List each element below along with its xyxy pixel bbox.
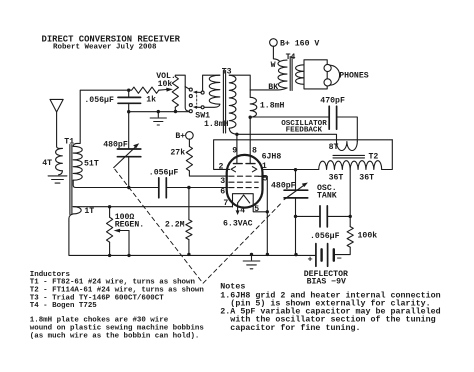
wire B+ to 27k (188, 139, 190, 146)
wire 1k to volume wiper arrow (159, 89, 167, 92)
node ground symbol stub (250, 253, 253, 256)
svg-text:1.8mH plate chokes are #30 wir: 1.8mH plate chokes are #30 wire (30, 317, 169, 325)
transformer T1 tickler 1T (73, 207, 81, 214)
svg-text:2: 2 (219, 163, 224, 172)
wire T3 right bottom lead (229, 128, 237, 134)
switch SW1 gang dashed link (196, 95, 198, 104)
capacitor C .056uF grid plates (159, 178, 167, 198)
svg-text:T1 - FT82-61 #24 wire, turns a: T1 - FT82-61 #24 wire, turns as shown (30, 279, 196, 287)
svg-text:6.3VAC: 6.3VAC (223, 219, 253, 228)
svg-text:−: − (337, 254, 342, 264)
wire feedback upper to 470pF (250, 116, 329, 118)
phones earpieces (324, 64, 331, 71)
wire pin 9 plate lead (236, 134, 238, 163)
svg-text:T2 - FT114A-61 #24 wire, turns: T2 - FT114A-61 #24 wire, turns as shown (30, 286, 205, 294)
battery deflector bias plates (316, 244, 328, 267)
svg-text:B+ 160 V: B+ 160 V (280, 39, 319, 48)
svg-text:470pF: 470pF (320, 96, 345, 105)
wire T1 primary to ground (59, 171, 63, 175)
wire pin 2 to tank top (214, 140, 393, 170)
wire B+ to T4 (273, 46, 279, 61)
phones jack body (304, 60, 327, 89)
tube deflector left (231, 167, 235, 172)
inductor 8T coupling coil (337, 142, 358, 151)
node regen pot top (108, 205, 111, 208)
wire 100k to battery (334, 247, 350, 254)
node input cap top (127, 89, 130, 92)
wire SW1 pole upper to T3 top (203, 75, 220, 91)
wire SW1 pole lower to T3 bottom (204, 104, 220, 107)
resistor 27k (186, 146, 192, 170)
node input cap bottom (127, 110, 130, 113)
wire tap to 100k (349, 216, 351, 226)
transformer T3 left winding (209, 75, 220, 104)
potentiometer VOL 10k (172, 77, 178, 108)
transformer T3 core (223, 71, 225, 134)
ground volume (150, 118, 166, 125)
node osc cap junction (294, 215, 297, 218)
svg-text:.056µF: .056µF (84, 96, 114, 105)
svg-text:27k: 27k (170, 148, 185, 158)
tube grid row 2 (229, 181, 258, 183)
switch SW1 contacts (189, 88, 192, 91)
svg-text:.056µF: .056µF (310, 232, 340, 241)
transformer T2 core (333, 155, 365, 158)
wire antenna feedline (57, 112, 63, 148)
node regen bottom on bus (108, 254, 111, 257)
svg-text:36T: 36T (329, 173, 344, 182)
capacitor 470pF plates (329, 106, 336, 129)
svg-text:FEEDBACK: FEEDBACK (286, 127, 323, 135)
wire T3 right top lead (229, 75, 250, 97)
svg-text:3: 3 (220, 177, 225, 186)
capacitor C .056uF osc plates (320, 206, 327, 227)
arrowhead 6.3VAC (236, 210, 240, 215)
wire AF ground bus (129, 111, 190, 113)
svg-text:wound on plastic sewing machin: wound on plastic sewing machine bobbins (30, 324, 205, 332)
svg-text:6JH8: 6JH8 (262, 153, 282, 162)
svg-text:T1: T1 (64, 138, 74, 147)
node choke bottom pin8 (249, 116, 252, 119)
svg-text:1.8mH: 1.8mH (260, 102, 285, 111)
transformer T1 primary 4T (56, 148, 63, 170)
wire AF bus to 480pF (128, 112, 130, 149)
node pin 5 junction (266, 210, 269, 213)
wire 27k to pin 3 (189, 171, 227, 176)
wire T1 secondary bottom to cap (73, 180, 159, 187)
tube cathode (233, 194, 268, 212)
capacitor 480pF RF plates (117, 149, 140, 157)
node 2.2M top on grid wire (187, 186, 190, 189)
tube V1 6JH8 envelope (227, 155, 263, 208)
svg-text:8T: 8T (329, 143, 339, 152)
node osc divider on bus (294, 253, 297, 256)
arrow 480pF OSC (284, 185, 305, 200)
node tank tap junction (349, 215, 352, 218)
tube grid row 1 (229, 175, 258, 177)
wire regen wiper (119, 231, 129, 256)
svg-text:1k: 1k (146, 95, 156, 105)
capacitor C .056uF input plates (118, 97, 141, 103)
node pin5 on bus (266, 253, 269, 256)
switch SW1 rotor arm upper (197, 91, 202, 93)
wire cap bottom to AF bus (128, 103, 130, 111)
resistor 100k (347, 227, 353, 248)
svg-text:+: + (308, 255, 313, 265)
svg-text:6: 6 (220, 187, 225, 196)
arrowhead regen wiper (114, 229, 121, 233)
capacitor 480pF OSC plates (284, 190, 308, 198)
ground antenna (48, 176, 67, 183)
wire bus ground stub (251, 255, 253, 261)
wire tank cap top lead (295, 170, 297, 191)
wire tank cap bottom lead (295, 198, 297, 255)
tube deflector right (252, 167, 256, 172)
wire junction to cap top (128, 90, 130, 97)
svg-text:4T: 4T (42, 159, 52, 168)
svg-text:REGEN.: REGEN. (115, 221, 144, 230)
wire ground stub (157, 112, 159, 117)
transformer T4 primary (278, 60, 287, 88)
wire cathode regen (73, 206, 232, 208)
wire pin 4 heater lead (237, 203, 239, 211)
wire feedback lower to 8T left (237, 134, 337, 141)
wire ground bus (69, 214, 316, 256)
svg-text:1T: 1T (84, 207, 94, 216)
svg-text:480pF: 480pF (103, 140, 128, 149)
svg-text:PHONES: PHONES (339, 71, 369, 80)
node tank top (294, 168, 297, 171)
wire 2.2M bottom lead (188, 240, 190, 255)
svg-text:.056µF: .056µF (149, 168, 179, 177)
ground main (243, 261, 260, 269)
wire pin 1 to T2 (262, 169, 319, 171)
svg-text:T2: T2 (369, 152, 379, 161)
wire 470pF to 8T right (337, 117, 358, 142)
potentiometer 100 ohm REGEN (107, 217, 113, 242)
wire pot top to SW1 bracket (175, 75, 188, 111)
node regen wiper on bus (127, 254, 130, 257)
wire junction to .056uF osc (296, 215, 321, 217)
svg-text:2.2M: 2.2M (165, 220, 185, 229)
wire regen top lead (109, 207, 111, 217)
svg-text:100k: 100k (358, 231, 378, 241)
svg-text:5: 5 (254, 205, 259, 214)
terminal B+ (186, 132, 194, 140)
svg-text:(as much wire as the bobbin ca: (as much wire as the bobbin can hold). (30, 332, 200, 340)
svg-text:480pF: 480pF (271, 182, 296, 191)
svg-text:Robert Weaver July 2008: Robert Weaver July 2008 (53, 44, 157, 52)
wire .056uF osc to tap (327, 215, 350, 217)
svg-text:4: 4 (240, 206, 245, 215)
inductor 1.8mH plate choke (250, 97, 257, 117)
phones headband (330, 65, 340, 85)
wire 2.2M top lead (188, 188, 190, 220)
resistor 2.2M (186, 220, 192, 240)
wire cap to pin 6 (166, 187, 228, 189)
svg-text:1.8mH: 1.8mH (204, 120, 229, 129)
wire T2 right end loop (382, 140, 393, 170)
antenna (50, 99, 63, 112)
arrow 480pF RF (114, 147, 136, 168)
wire pin 8 plate lead (249, 117, 251, 163)
svg-text:9: 9 (232, 147, 237, 156)
wire T4 primary bottom BK lead (250, 88, 287, 90)
switch SW1 rotor arm lower (197, 106, 202, 108)
node pot bottom (174, 110, 177, 113)
wire pot bottom (174, 107, 176, 111)
transformer T1 secondary 51T (73, 146, 82, 180)
svg-text:BK: BK (268, 83, 278, 92)
svg-text:36T: 36T (359, 173, 374, 182)
svg-text:T4 - Bogen T725: T4 - Bogen T725 (30, 302, 97, 310)
svg-text:capacitor for fine tuning.: capacitor for fine tuning. (220, 323, 360, 333)
dashed gang line tuning capacitor (115, 169, 282, 283)
svg-text:51T: 51T (84, 159, 99, 168)
arrowhead volume wiper (166, 88, 173, 92)
wire 480pF to grid wire (128, 157, 130, 188)
node 480pF bottom on grid wire (127, 186, 130, 189)
tube grid row 3 (229, 187, 258, 189)
svg-text:B+: B+ (175, 132, 185, 141)
wire T1 secondary top lead (73, 90, 131, 146)
terminal B+ 160 V (270, 39, 278, 47)
svg-text:T3 - Triad TY-146P 600CT/600CT: T3 - Triad TY-146P 600CT/600CT (30, 294, 164, 302)
transformer T4 core (290, 57, 292, 91)
node ground stub (157, 110, 160, 113)
tube plate bars (233, 163, 255, 165)
wire T2 center tap (349, 170, 351, 217)
transformer T1 core (70, 145, 72, 215)
node T3 bottom junction (235, 133, 238, 136)
wire regen bottom lead (109, 242, 111, 255)
tube heater (238, 195, 250, 203)
svg-text:W: W (271, 61, 276, 70)
svg-text:8: 8 (252, 147, 257, 156)
resistor 1k (132, 87, 159, 93)
svg-text:BIAS −9V: BIAS −9V (307, 277, 346, 286)
transformer T2 winding (319, 161, 382, 170)
wire SW1 bracket to contact 1 (185, 87, 189, 90)
svg-text:TANK: TANK (317, 192, 337, 201)
wire pin 5 grid lead (258, 176, 267, 254)
transformer T4 secondary (296, 65, 304, 85)
transformer T3 right winding (229, 75, 236, 128)
node 2.2M bottom on bus (187, 253, 190, 256)
svg-text:10k: 10k (158, 79, 173, 89)
